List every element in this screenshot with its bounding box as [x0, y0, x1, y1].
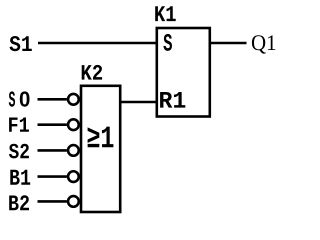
pin label S (set) — [163, 34, 172, 51]
wire S1 to K1 S input — [38, 42, 157, 45]
node label F1 — [9, 118, 29, 132]
inverter bubble B1 — [68, 171, 79, 182]
wire B1 input — [38, 175, 67, 178]
wire S2 input — [38, 149, 67, 152]
gate function label >=1 (OR) — [88, 127, 114, 148]
inverter bubble F1 — [68, 119, 79, 130]
node label B1 — [10, 170, 30, 185]
wire K1 output to Q1 — [210, 42, 247, 45]
inverter bubble S2 — [68, 145, 79, 156]
wire B2 input — [38, 200, 67, 203]
flip-flop K1 box — [157, 28, 210, 117]
wire K2 output to K1 R1 input — [120, 101, 157, 104]
wire F1 input — [38, 123, 67, 126]
node label S1 — [10, 36, 32, 51]
label K2 — [82, 65, 102, 80]
or-gate K2 box — [81, 86, 120, 212]
label K1 — [155, 6, 176, 21]
pin label R1 (dominant reset) — [160, 92, 185, 108]
inverter bubble S0 — [68, 94, 79, 105]
node label B2 — [9, 195, 29, 210]
wire S0 input — [38, 98, 67, 101]
inverter bubble B2 — [68, 196, 79, 207]
node label S0 — [9, 91, 30, 106]
node label S2 — [9, 144, 29, 159]
node label Q1 — [252, 35, 275, 53]
